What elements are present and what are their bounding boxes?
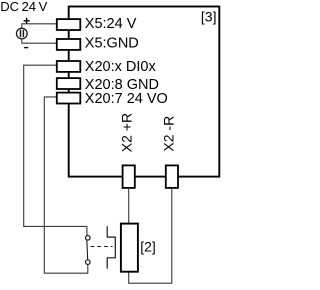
svg-text:X5:24 V: X5:24 V (85, 16, 137, 32)
svg-text:X2 +R: X2 +R (119, 113, 135, 152)
switch S1 bottom contact (86, 260, 91, 265)
svg-text:X5:GND: X5:GND (85, 36, 139, 52)
wire X20:x DI0x to switch top contact (24, 65, 87, 235)
wire X2 +R to brake [2] (128, 188, 130, 224)
svg-text:[3]: [3] (201, 9, 217, 25)
svg-text:DC 24 V: DC 24 V (0, 0, 47, 14)
svg-text:X20:7 24 VO: X20:7 24 VO (85, 91, 168, 107)
terminal X20:x DI0x (57, 61, 81, 72)
terminal X2 +R (123, 165, 135, 188)
wire - supply to X5:GND (22, 39, 58, 43)
terminal X5:24 V (57, 19, 81, 30)
DC source G1 (17, 28, 28, 39)
terminal X20:8 GND (57, 78, 81, 89)
svg-text:[2]: [2] (140, 238, 156, 254)
wire X20:7 24 VO to switch bottom contact (44, 97, 88, 273)
terminal X2 -R (166, 165, 178, 188)
svg-text:X2 -R: X2 -R (160, 116, 176, 152)
minus sign (24, 47, 28, 49)
wire brake [2] to X2 -R (129, 188, 172, 283)
actuator lever (107, 226, 115, 268)
terminal X20:7 24 VO (57, 93, 81, 104)
terminal X5:GND (57, 39, 81, 50)
mechanical link (dashed) (91, 246, 113, 248)
plus sign (24, 18, 30, 24)
svg-text:X20:x DI0x: X20:x DI0x (85, 59, 157, 75)
switch S1 top contact (86, 236, 91, 241)
wire + supply to X5:24 (22, 24, 58, 29)
brake [2] (121, 224, 138, 272)
switch S1 blade (86, 240, 89, 260)
controller box [3] (69, 7, 220, 177)
